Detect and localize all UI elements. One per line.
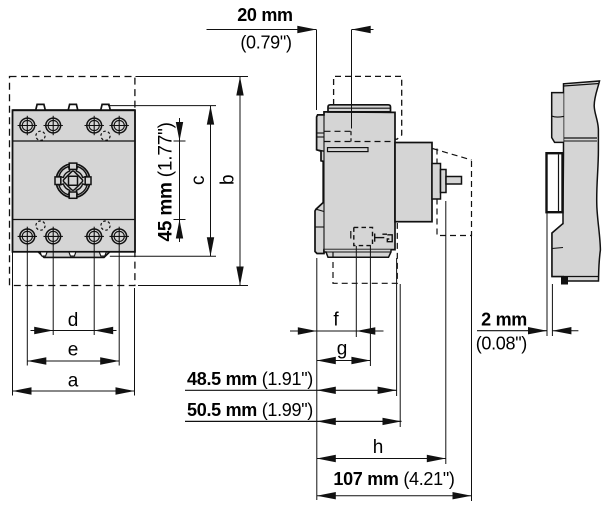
attachment block (contactor) [395, 143, 432, 222]
upper mounting tab [552, 93, 564, 143]
dashed aux holes bottom [36, 221, 45, 230]
lower mounting tab [552, 224, 563, 277]
front view body [13, 110, 136, 252]
svg-text:c: c [188, 176, 209, 186]
DIN rail cross-section [547, 153, 563, 212]
20mm extension lines [316, 30, 318, 111]
2mm extension lines [546, 213, 548, 336]
side view dashed envelope top [334, 76, 402, 139]
svg-text:g: g [337, 339, 348, 360]
rotary knob [55, 163, 91, 198]
dimension b vertical [236, 77, 243, 286]
bottom foot [38, 252, 110, 258]
svg-text:b: b [218, 174, 239, 185]
dimension 20 mm top [207, 26, 374, 33]
extension lines [316, 258, 318, 500]
terminal screw bottom 2 [44, 227, 63, 246]
dimension 2 mm [477, 327, 578, 334]
ledge double lines [564, 137, 598, 139]
svg-text:f: f [333, 310, 339, 331]
lower foot block [562, 277, 568, 285]
dimension h [317, 455, 446, 462]
terminal screw top 2 [44, 116, 63, 135]
front view dashed envelope [10, 77, 135, 286]
dimension 50.5 mm [185, 418, 402, 425]
dimension f [290, 327, 384, 334]
clip symbol [375, 234, 393, 242]
dashed envelope below body [333, 223, 397, 283]
svg-text:20 mm: 20 mm [237, 5, 293, 25]
terminal screw bottom 1 [18, 227, 37, 246]
terminal screw top 3 [85, 116, 104, 135]
shaft [446, 177, 462, 185]
shaft step 2 [441, 170, 447, 193]
right view main body with broken edge [552, 81, 600, 281]
terminal screw top 4 [110, 116, 129, 135]
terminal screw bottom 4 [110, 227, 129, 246]
svg-text:d: d [68, 310, 79, 331]
svg-text:a: a [68, 371, 79, 392]
extension lines below front view [12, 252, 14, 396]
dimension c vertical [207, 106, 214, 257]
extension line b bottom [138, 285, 248, 287]
top mounting tab 2 [68, 104, 78, 110]
svg-text:107 mm (4.21"): 107 mm (4.21") [333, 469, 454, 489]
left tab divider lines [317, 132, 324, 134]
side view main body [315, 112, 395, 254]
terminal screw bottom 3 [85, 227, 104, 246]
dimension 107 mm [317, 492, 472, 499]
side bottom foot [324, 250, 391, 258]
marking slot bar [328, 148, 369, 152]
svg-text:(0.79"): (0.79") [240, 33, 291, 53]
dashed aux holes top [36, 131, 45, 140]
svg-text:50.5 mm (1.99"): 50.5 mm (1.99") [187, 400, 313, 420]
svg-text:(0.08"): (0.08") [476, 334, 527, 354]
body section lines [13, 140, 136, 142]
terminal screw top 1 [18, 116, 37, 135]
top cap line [564, 84, 600, 87]
shaft step 1 [432, 164, 441, 200]
svg-text:45 mm (1.77"): 45 mm (1.77") [156, 122, 177, 241]
svg-text:48.5 mm (1.91"): 48.5 mm (1.91") [187, 369, 313, 389]
bottom double line [563, 276, 599, 278]
side body top cap [328, 105, 391, 112]
svg-text:2 mm: 2 mm [481, 310, 527, 330]
dimension e [27, 357, 119, 364]
svg-text:e: e [68, 340, 79, 361]
dimension 45 mm vertical [174, 118, 186, 242]
top mounting tab 1 [36, 104, 46, 110]
extension line c top [108, 105, 216, 107]
dashed detail square bottom [354, 227, 373, 245]
dimension 48.5 mm [185, 387, 397, 394]
svg-text:h: h [373, 437, 384, 458]
dimension d [31, 327, 117, 334]
dashed handle envelope [433, 149, 472, 161]
dimension a [13, 387, 135, 394]
top mounting tab 3 [101, 104, 111, 110]
extension line c bottom [110, 255, 216, 257]
extension line b top [136, 76, 249, 78]
dashed accessory lines inside body [325, 130, 352, 132]
dimension g [317, 357, 371, 364]
